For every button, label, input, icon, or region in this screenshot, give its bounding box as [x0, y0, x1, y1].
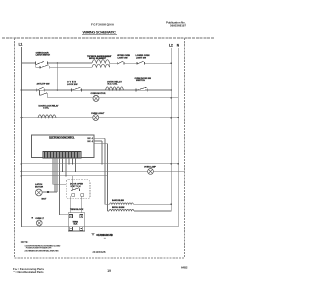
row5 wire: [22, 163, 180, 165]
latch motor wire: [42, 191, 57, 193]
electronic oven control U1: [32, 135, 95, 158]
svg-text:L1: L1: [19, 43, 23, 47]
oven door switch S7: [136, 87, 172, 91]
svg-text:COIL: COIL: [43, 108, 50, 110]
door unlock switch label: [136, 55, 151, 59]
relay contact drop wires: [40, 90, 48, 98]
connector drop wire 5: [62, 158, 63, 172]
motor door switch S3: [117, 61, 137, 65]
relay coil K1: [106, 87, 124, 90]
door latch switch label: [36, 53, 51, 57]
svg-text:19: 19: [107, 269, 111, 273]
svg-text:TERM BLOCK: TERM BLOCK: [70, 209, 84, 211]
oven motor M1: [93, 95, 99, 101]
svg-text:2. SCHEMATIC SHOWN WITH ALL SW: 2. SCHEMATIC SHOWN WITH ALL SWITCHES: [24, 250, 59, 253]
svg-text:BROIL ELEM: BROIL ELEM: [112, 207, 125, 209]
connector drop wire 1: [53, 158, 66, 184]
door switch terminal a: [72, 194, 75, 196]
svg-text:OVEN LAMP: OVEN LAMP: [144, 165, 157, 168]
chassis ground symbol: [92, 234, 95, 236]
row2 wire: [22, 89, 172, 91]
door switch terminal b: [81, 194, 84, 196]
connector drop wire 9: [75, 158, 76, 172]
svg-text:LOCK SW: LOCK SW: [67, 84, 78, 86]
row4 wire: [22, 117, 179, 119]
small ground mark: [104, 237, 106, 239]
N bus wire: [177, 48, 179, 227]
row1 merge wire: [110, 63, 118, 67]
broil element label: [87, 55, 112, 60]
svg-text:* = Non-Illustrated Parts: * = Non-Illustrated Parts: [14, 270, 44, 274]
svg-text:64B2: 64B2: [181, 266, 188, 270]
connector drop wire 4: [60, 158, 69, 215]
svg-text:= CHASSIS GROUND: = CHASSIS GROUND: [96, 234, 113, 237]
bake element wire to L2: [133, 203, 171, 205]
row3 wire: [48, 97, 179, 99]
oven door switch label: [135, 78, 152, 82]
svg-text:BK-1: BK-1: [88, 138, 94, 140]
relay contact blade: [40, 93, 47, 96]
board pin stub 1: [94, 137, 105, 139]
schematic border right: [183, 38, 185, 258]
svg-text:BK-2: BK-2: [88, 141, 94, 143]
svg-text:N.O. COIL: N.O. COIL: [108, 83, 119, 85]
svg-text:LIGHT SW: LIGHT SW: [118, 57, 128, 59]
svg-text:NOTE:: NOTE:: [21, 241, 29, 244]
svg-text:BLK: BLK: [74, 224, 79, 226]
schematic border bottom: [15, 257, 185, 259]
svg-text:ELECTRONIC OVEN CONTROL: ELECTRONIC OVEN CONTROL: [49, 137, 75, 139]
svg-text:MOTOR: MOTOR: [35, 186, 44, 188]
connector drop wire 7: [68, 158, 69, 165]
latch switch S2 lower: [35, 65, 92, 69]
svg-text:L2: L2: [169, 43, 173, 47]
svg-text:BAKE ELEM: BAKE ELEM: [112, 199, 124, 202]
header rule: [2, 37, 215, 39]
connector drop wire 8: [72, 158, 73, 165]
connector drop wire 2: [54, 158, 55, 193]
schematic border left: [14, 38, 16, 258]
bake element E3 coil: [110, 203, 134, 205]
relay coil K1 label: [107, 80, 123, 85]
svg-text:FGF368KQNA: FGF368KQNA: [91, 22, 115, 26]
drop wire row1 to row2: [57, 62, 59, 91]
connector drop wire 3: [56, 158, 58, 192]
svg-text:OVEN MOTOR: OVEN MOTOR: [91, 93, 106, 95]
wire vB pin1 down to bake element row: [105, 138, 110, 204]
door switch box outline: [66, 180, 90, 199]
lock switch S6 on row2: [72, 87, 82, 91]
svg-text:LATCH SWITCH: LATCH SWITCH: [36, 54, 51, 57]
L1 bus wire: [21, 47, 23, 227]
bottom rail wire: [22, 226, 179, 228]
oven light DS1: [93, 115, 180, 121]
title underline: [82, 33, 117, 35]
svg-text:24423532B: 24423532B: [93, 251, 106, 254]
row7 wire: [22, 175, 108, 177]
door unlock switch S4: [137, 61, 172, 65]
terminal block TB1: [68, 213, 85, 231]
svg-text:SWITCH: SWITCH: [71, 186, 82, 188]
L2 bus wire: [170, 48, 172, 211]
svg-text:5995368197: 5995368197: [170, 23, 186, 27]
door switch S8: [71, 176, 80, 191]
latch switch S1 upper: [36, 61, 93, 64]
element E1 coil upper: [92, 60, 110, 63]
latch motor M2: [35, 189, 42, 196]
oven light bottom label: [32, 217, 45, 220]
wire from door switch to terminal block: [71, 196, 82, 213]
publication number block: [166, 20, 186, 27]
door switch label: [70, 184, 84, 188]
connector drop wire 6: [65, 158, 66, 177]
svg-text:MOT: MOT: [42, 199, 48, 201]
broil element wire to L2 corner: [134, 210, 171, 212]
board pin stub 2: [94, 140, 102, 142]
oven relay coil K2: [38, 115, 56, 118]
motor door switch label: [117, 55, 131, 59]
svg-text:ANTI-TIP SW: ANTI-TIP SW: [37, 82, 51, 85]
row1 wire from L1: [22, 63, 36, 67]
element E2 coil lower: [92, 64, 110, 67]
row4 oven relay coil label: [39, 104, 60, 109]
broil element E4 coil: [109, 209, 134, 211]
lock switch S6 label: [67, 82, 78, 86]
wire vA pin2 down to row5: [101, 141, 103, 165]
wire vC pin3 down to broil element row: [107, 144, 109, 211]
oven lamp DS2: [147, 168, 153, 174]
oven light DS3: [36, 220, 42, 227]
svg-text:N: N: [177, 43, 180, 47]
svg-text:POSITION WITH POWER OFF.: POSITION WITH POWER OFF.: [26, 248, 52, 250]
svg-text:SWITCH: SWITCH: [136, 80, 145, 82]
row6 wire: [22, 170, 185, 172]
connector P1 strip: [43, 152, 81, 159]
board pin stub 3: [94, 143, 107, 145]
latch motor label: [35, 183, 44, 188]
svg-text:LIGHT SW: LIGHT SW: [136, 57, 146, 59]
svg-text:WIRING SCHEMATIC: WIRING SCHEMATIC: [83, 29, 117, 34]
svg-text:BROIL ELEMENT: BROIL ELEMENT: [89, 58, 107, 60]
switch S5 on row2: [36, 87, 44, 91]
